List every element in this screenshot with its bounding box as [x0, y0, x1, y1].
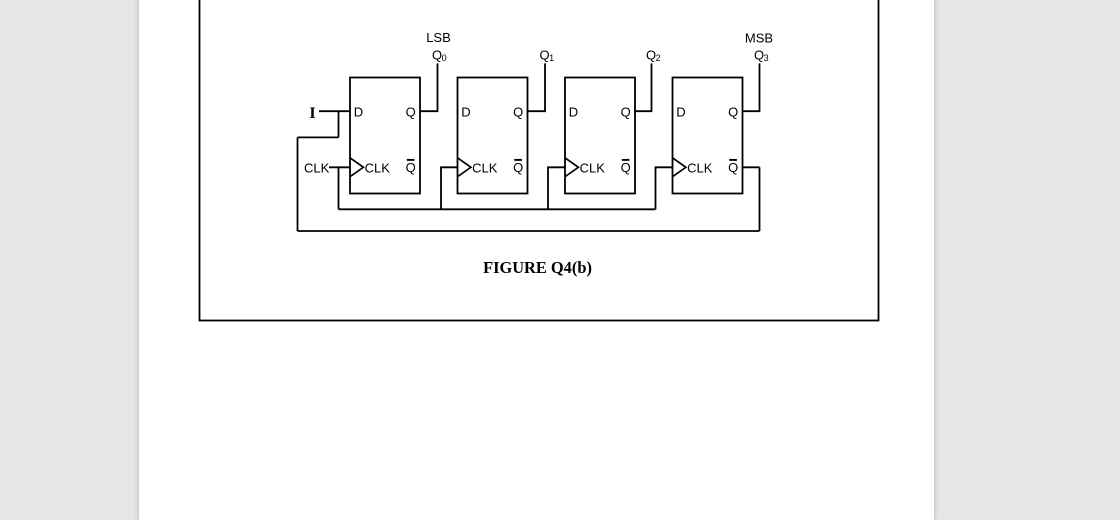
svg-text:Q: Q [646, 47, 656, 62]
svg-text:LSB: LSB [426, 30, 451, 45]
svg-text:D: D [676, 105, 685, 120]
svg-text:D: D [569, 105, 578, 120]
wire feedback right vertical from U4 Qbar [759, 167, 761, 231]
clock triangle U4 [673, 158, 686, 177]
svg-text:MSB: MSB [745, 30, 773, 45]
Qbar overbar U4 [729, 159, 737, 161]
svg-text:3: 3 [764, 53, 769, 63]
figure frame box [200, 0, 879, 321]
Qbar overbar U2 [514, 159, 522, 161]
svg-text:Q: Q [513, 160, 523, 175]
wire U4 Qbar stub [743, 166, 760, 168]
wire clock stub U2 [441, 167, 458, 209]
flip-flop U4 body [673, 78, 743, 194]
flip-flop U3 body [565, 78, 635, 194]
clock triangle U1 [350, 158, 363, 177]
Qbar overbar U3 [622, 159, 630, 161]
wire clock stub U4 [656, 167, 673, 209]
svg-text:Q: Q [621, 105, 631, 120]
wire clock stub U3 [548, 167, 565, 209]
svg-text:Q: Q [513, 105, 523, 120]
svg-text:CLK: CLK [472, 161, 498, 176]
wire feedback bottom bus [298, 230, 760, 232]
svg-text:CLK: CLK [687, 161, 713, 176]
wire Q2 output [635, 63, 652, 111]
wire feedback junction vertical into D line [338, 111, 340, 137]
wire Q0 output [420, 63, 438, 111]
svg-text:Q: Q [728, 105, 738, 120]
wire I input to U1 D [319, 110, 350, 112]
flip-flop U2 body [458, 78, 528, 194]
svg-text:CLK: CLK [365, 161, 391, 176]
svg-text:CLK: CLK [580, 161, 606, 176]
wire Q3 output [743, 63, 760, 111]
svg-text:Q: Q [728, 160, 738, 175]
svg-text:0: 0 [442, 53, 447, 63]
wire feedback left vertical [297, 137, 299, 231]
document white page [139, 0, 934, 520]
svg-text:Q: Q [432, 47, 442, 62]
svg-text:CLK: CLK [304, 161, 330, 176]
svg-text:Q: Q [406, 160, 416, 175]
svg-text:Q: Q [406, 105, 416, 120]
clock triangle U3 [565, 158, 578, 177]
Qbar overbar U1 [407, 159, 415, 161]
svg-text:D: D [354, 105, 363, 120]
wire CLK input [329, 166, 350, 168]
flip-flop U1 body [350, 78, 420, 194]
wire Q1 output [528, 63, 546, 111]
svg-text:I: I [309, 105, 315, 122]
svg-text:Q: Q [754, 47, 764, 62]
svg-text:Q: Q [539, 47, 549, 62]
wire clock drop vertical [338, 167, 340, 209]
svg-text:D: D [461, 105, 470, 120]
svg-text:Q: Q [621, 160, 631, 175]
svg-text:1: 1 [549, 53, 554, 63]
wire clock bottom bus [339, 208, 656, 210]
svg-text:2: 2 [656, 53, 661, 63]
wire feedback mid horizontal [298, 136, 339, 138]
clock triangle U2 [458, 158, 471, 177]
svg-text:FIGURE Q4(b): FIGURE Q4(b) [483, 258, 592, 277]
